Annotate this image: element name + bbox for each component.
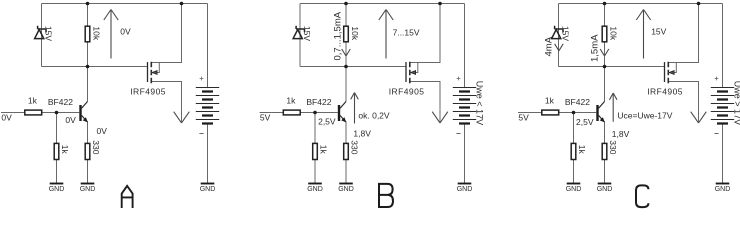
mosfet channel segments: [150, 62, 152, 83]
wire input to base: [1, 112, 79, 114]
svg-text:0V: 0V: [97, 126, 108, 136]
wire 10k branch: [604, 4, 606, 67]
junction node gate line / collector: [86, 65, 90, 69]
arrow 10k current B: [342, 49, 351, 56]
ground GND battery: [715, 184, 731, 193]
arrow supply voltage: [104, 10, 118, 59]
battery minus sign: [199, 133, 203, 135]
resistor 10k: [344, 26, 349, 42]
junction node top rail / 10k: [86, 2, 90, 6]
mosfet body tap: [410, 63, 418, 73]
svg-text:2,5V: 2,5V: [318, 117, 336, 127]
battery plus sign: [200, 77, 204, 81]
wire 1k pulldown branch: [56, 113, 58, 184]
wire battery top: [464, 4, 466, 88]
wire mosfet source up: [410, 4, 440, 63]
mosfet MA IRF4905 gate bar: [147, 62, 149, 82]
junction node base / 1k pulldown: [572, 111, 576, 115]
battery minus sign: [456, 133, 460, 135]
mosfet MB IRF4905 gate bar: [405, 62, 407, 82]
svg-text:0V: 0V: [1, 113, 12, 123]
transistor QA BF422 base bar: [79, 105, 81, 121]
battery BA long plates: [196, 88, 219, 120]
resistor 10k: [602, 26, 607, 42]
transistor collector lead: [82, 102, 88, 109]
junction node gate line / collector: [344, 65, 348, 69]
junction node top rail / 10k: [344, 2, 348, 6]
resistor 330 emitter: [344, 143, 349, 159]
wire input to base: [260, 112, 338, 114]
resistor 10k: [85, 26, 90, 42]
resistor 1k pulldown: [54, 143, 59, 159]
transistor QC BF422 base bar: [596, 105, 598, 121]
svg-text:1,8V: 1,8V: [353, 128, 371, 138]
svg-text:10k: 10k: [91, 26, 101, 40]
svg-text:10k: 10k: [608, 26, 618, 40]
ground GND battery: [457, 184, 473, 193]
svg-text:GND: GND: [715, 186, 731, 193]
svg-text:1k: 1k: [286, 95, 296, 105]
ground GND 1k pulldown: [307, 184, 323, 193]
wire top rail: [42, 3, 208, 5]
svg-text:BF422: BF422: [306, 97, 331, 107]
wire input to base: [518, 112, 596, 114]
svg-text:GND: GND: [307, 186, 323, 193]
mosfet body arrow: [411, 71, 416, 75]
arrow 10k current C: [600, 49, 609, 56]
junction node base / 1k pulldown: [313, 111, 317, 115]
wire battery bottom: [207, 124, 209, 184]
zener diode DC 15V: [552, 26, 563, 39]
svg-text:330: 330: [349, 140, 359, 154]
svg-text:GND: GND: [49, 186, 65, 193]
resistor 1k pulldown: [571, 143, 576, 159]
wire battery bottom: [464, 124, 466, 184]
junction node base / 1k pulldown: [55, 111, 59, 115]
mosfet channel segments: [409, 62, 411, 83]
mosfet body arrow: [152, 71, 157, 75]
svg-text:IRF4905: IRF4905: [389, 87, 425, 97]
transistor emitter arrow: [600, 117, 605, 122]
wire collector: [604, 67, 606, 102]
svg-text:0,7...1,5mA: 0,7...1,5mA: [333, 11, 344, 60]
wire top rail: [300, 3, 465, 5]
wire mosfet source up: [668, 4, 698, 63]
svg-text:BF422: BF422: [565, 97, 590, 107]
transistor emitter lead: [82, 115, 88, 122]
wire top rail: [559, 3, 723, 5]
wire 1k pulldown branch: [314, 113, 316, 184]
svg-text:4mA: 4mA: [543, 36, 554, 56]
transistor emitter arrow: [83, 117, 88, 122]
battery BC long plates: [711, 88, 734, 120]
svg-text:2,5V: 2,5V: [576, 117, 594, 127]
svg-text:1k: 1k: [60, 145, 70, 155]
svg-text:10k: 10k: [350, 26, 360, 40]
battery short plates: [717, 92, 728, 124]
svg-text:1,5mA: 1,5mA: [590, 34, 601, 62]
svg-text:ok. 0,2V: ok. 0,2V: [358, 111, 390, 121]
svg-text:1k: 1k: [545, 95, 555, 105]
transistor emitter lead: [340, 115, 346, 122]
zener diode DA 15V: [35, 26, 46, 39]
battery short plates: [202, 92, 213, 124]
arrow load current down: [432, 112, 448, 123]
junction node top rail / source: [697, 2, 701, 6]
junction node gate line / collector: [603, 65, 607, 69]
transistor collector lead: [599, 102, 605, 109]
svg-text:1,8V: 1,8V: [612, 129, 630, 139]
resistor 1k base: [283, 110, 300, 115]
svg-text:GND: GND: [338, 186, 354, 193]
transistor emitter lead: [599, 115, 605, 122]
wire zener branch: [558, 4, 560, 67]
svg-text:15V: 15V: [560, 26, 570, 41]
mosfet MC IRF4905 gate bar: [664, 62, 666, 82]
svg-text:1k: 1k: [577, 145, 587, 155]
svg-text:5V: 5V: [518, 113, 529, 123]
arrow supply voltage: [636, 10, 650, 59]
circuit letter B: [379, 184, 393, 207]
svg-text:7...15V: 7...15V: [393, 27, 420, 37]
svg-text:0V: 0V: [120, 26, 131, 36]
svg-text:GND: GND: [566, 186, 582, 193]
ground GND battery: [200, 184, 216, 193]
wire loop bottom / gate lead: [559, 66, 665, 68]
ground GND 1k pulldown: [49, 184, 65, 193]
resistor 1k pulldown: [313, 143, 318, 159]
svg-text:Uwe < 17V: Uwe < 17V: [474, 81, 484, 125]
wire 10k branch: [87, 4, 89, 67]
junction node top rail / source: [180, 2, 184, 6]
svg-text:330: 330: [608, 140, 618, 154]
wire emitter down to GND: [345, 122, 347, 184]
svg-text:1k: 1k: [28, 95, 38, 105]
battery plus sign: [715, 77, 719, 81]
battery short plates: [459, 92, 470, 124]
resistor 330 emitter: [85, 143, 90, 159]
ground GND 330: [597, 184, 613, 193]
svg-text:GND: GND: [80, 186, 96, 193]
mosfet body arrow: [669, 71, 674, 75]
wire collector: [345, 67, 347, 102]
resistor 330 emitter: [602, 143, 607, 159]
wire loop bottom / gate lead: [300, 66, 406, 68]
zener diode DB 15V: [293, 26, 304, 39]
svg-text:GND: GND: [200, 186, 216, 193]
arrow Vce C: [609, 93, 617, 122]
svg-text:330: 330: [91, 140, 101, 154]
svg-text:Uce=Uwe-17V: Uce=Uwe-17V: [617, 111, 672, 121]
wire battery bottom: [722, 124, 724, 184]
wire collector: [87, 67, 89, 102]
arrow load current down: [174, 112, 190, 123]
svg-text:Uwe > 17V: Uwe > 17V: [732, 81, 740, 125]
wire mosfet drain: [410, 82, 440, 122]
arrow load current down: [691, 112, 707, 123]
wire mosfet drain: [668, 82, 698, 122]
wire emitter down to GND: [604, 122, 606, 184]
wire mosfet source up: [151, 4, 181, 63]
wire loop bottom / gate lead: [42, 66, 148, 68]
arrow Vce B: [351, 93, 359, 124]
resistor 1k base: [542, 110, 559, 115]
mosfet channel segments: [667, 62, 669, 83]
circuit letter A: [122, 186, 133, 208]
svg-text:1k: 1k: [319, 145, 329, 155]
transistor QB BF422 base bar: [338, 105, 340, 121]
svg-text:IRF4905: IRF4905: [130, 87, 166, 97]
wire emitter down to GND: [87, 122, 89, 184]
circuit letter C: [636, 185, 648, 207]
arrow supply voltage: [379, 10, 393, 59]
wire battery top: [722, 4, 724, 88]
wire mosfet drain: [151, 82, 181, 122]
svg-text:5V: 5V: [260, 113, 271, 123]
transistor collector lead: [340, 102, 346, 109]
junction node top rail / 10k: [603, 2, 607, 6]
wire 10k branch: [345, 4, 347, 67]
transistor emitter arrow: [341, 117, 346, 122]
ground GND 330: [80, 184, 96, 193]
svg-text:15V: 15V: [651, 26, 666, 36]
svg-text:BF422: BF422: [48, 97, 73, 107]
svg-text:GND: GND: [457, 186, 473, 193]
svg-text:15V: 15V: [302, 26, 312, 41]
wire 1k pulldown branch: [573, 113, 575, 184]
arrow zener current C: [555, 44, 564, 51]
svg-text:GND: GND: [597, 186, 613, 193]
svg-text:0V: 0V: [65, 115, 76, 125]
ground GND 330: [338, 184, 354, 193]
mosfet body tap: [668, 63, 676, 73]
wire zener branch: [299, 4, 301, 67]
battery BB long plates: [453, 88, 476, 120]
battery plus sign: [457, 77, 461, 81]
resistor 1k base: [25, 110, 42, 115]
battery minus sign: [714, 133, 718, 135]
mosfet body tap: [151, 63, 159, 73]
junction node top rail / source: [438, 2, 442, 6]
svg-text:15V: 15V: [43, 26, 53, 41]
wire zener branch: [41, 4, 43, 67]
wire battery top: [207, 4, 209, 88]
svg-text:IRF4905: IRF4905: [647, 87, 683, 97]
ground GND 1k pulldown: [566, 184, 582, 193]
